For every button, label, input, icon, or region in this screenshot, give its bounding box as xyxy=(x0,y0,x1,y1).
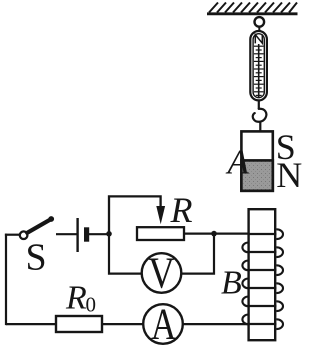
wire: rheostat to right junction xyxy=(184,233,214,235)
ceiling xyxy=(207,3,298,14)
wire: ammeter to coil xyxy=(183,323,249,325)
svg-text:A: A xyxy=(151,299,177,348)
voltmeter V xyxy=(142,248,182,297)
rheostat R (wiper arrow + body) xyxy=(137,206,184,240)
magnet A xyxy=(241,131,272,190)
svg-text:R: R xyxy=(65,279,87,316)
wire: bottom left xyxy=(6,323,56,325)
wire: junction up to rheostat wiper xyxy=(109,196,161,233)
wire: R0 to ammeter xyxy=(102,323,143,325)
svg-text:R: R xyxy=(170,190,193,230)
switch S xyxy=(5,216,78,239)
node: right junction xyxy=(211,231,217,237)
svg-text:0: 0 xyxy=(86,293,97,317)
ammeter A xyxy=(143,299,183,348)
svg-text:B: B xyxy=(221,264,242,301)
spring scale xyxy=(250,31,267,100)
wire: right junction to coil xyxy=(214,233,249,235)
wire: V branch right xyxy=(181,234,214,274)
ring xyxy=(254,17,264,31)
svg-text:S: S xyxy=(26,236,47,278)
wire: left vertical xyxy=(5,234,7,326)
battery xyxy=(78,218,109,252)
resistor R0 xyxy=(56,316,102,332)
svg-text:N: N xyxy=(276,155,302,195)
wire: V branch left xyxy=(109,234,142,274)
hook xyxy=(253,101,267,131)
svg-text:V: V xyxy=(148,248,175,297)
node: battery junction xyxy=(106,231,112,237)
svg-text:A: A xyxy=(226,143,250,182)
spring scale label N xyxy=(255,34,262,43)
coil B (solenoid on iron core) xyxy=(242,209,283,340)
